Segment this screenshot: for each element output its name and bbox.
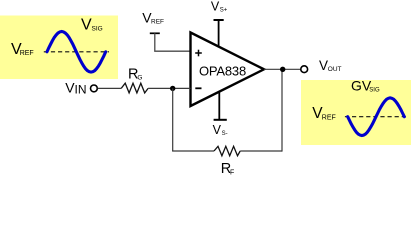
feedback wire down from node (172, 88, 174, 151)
svg-text:REF: REF (322, 114, 336, 121)
label VOUT (319, 58, 342, 73)
bottom feedback wire left (172, 150, 214, 152)
node at inverting input (170, 86, 175, 91)
input signal callout box (0, 16, 118, 80)
VREF supply bar (150, 32, 160, 34)
output signal callout box (301, 80, 411, 145)
output wire (264, 68, 301, 70)
label VS- (213, 123, 228, 137)
svg-text:REF: REF (151, 19, 164, 26)
svg-text:REF: REF (20, 50, 34, 57)
input sine wave (47, 32, 106, 73)
output terminal (301, 66, 308, 73)
VS- supply bar (214, 119, 227, 121)
bottom feedback wire right (240, 150, 282, 152)
label OPA838 (199, 64, 246, 79)
svg-text:V: V (81, 17, 92, 34)
label VREF (input callout) (11, 41, 34, 58)
resistor RF (214, 146, 240, 156)
output sine wave (348, 98, 405, 136)
dashed reference line (output callout) (345, 116, 409, 118)
label VIN (65, 79, 86, 96)
resistor RG (121, 83, 148, 93)
VS+ supply bar (214, 19, 224, 21)
svg-text:F: F (230, 169, 234, 176)
wire RG to inverting input (148, 87, 190, 89)
label VS+ (211, 0, 228, 13)
svg-text:V: V (213, 123, 222, 137)
label VREF (supply) (142, 9, 164, 25)
svg-text:SIG: SIG (369, 88, 380, 94)
feedback wire up to output (281, 69, 283, 151)
label RG (128, 66, 142, 82)
svg-text:SIG: SIG (92, 26, 103, 33)
label VSIG (81, 17, 103, 34)
svg-text:S-: S- (222, 131, 228, 137)
svg-text:OUT: OUT (328, 66, 342, 73)
wire VS+ to op-amp (218, 20, 220, 48)
wire input terminal to RG (98, 87, 122, 89)
noninverting input marker + (195, 50, 202, 57)
svg-text:IN: IN (75, 82, 87, 96)
label VREF (output callout) (312, 105, 336, 122)
label GVSIG (351, 78, 380, 94)
svg-text:G: G (137, 75, 142, 82)
inverting input marker - (195, 87, 201, 89)
svg-text:V: V (211, 0, 220, 13)
svg-text:V: V (319, 58, 328, 73)
wire VS- from op-amp (218, 92, 220, 120)
dashed reference line (input callout) (44, 51, 109, 53)
label RF (221, 161, 235, 177)
svg-text:OPA838: OPA838 (199, 64, 246, 79)
output node (280, 67, 285, 72)
wire VREF to noninverting input (155, 33, 191, 51)
op-amp U1 OPA838 (191, 33, 265, 107)
svg-text:S+: S+ (220, 7, 228, 13)
input terminal (91, 85, 98, 92)
